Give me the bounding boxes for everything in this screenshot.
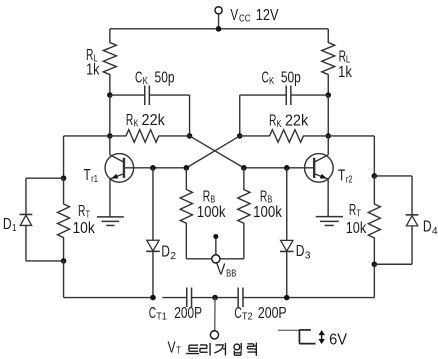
label RT left xyxy=(72,203,95,237)
label D4 xyxy=(423,219,438,237)
label VCC xyxy=(230,7,279,25)
label D3 xyxy=(296,243,311,261)
wire RL left to CK node xyxy=(109,74,111,95)
wire bottom rail segment 3 xyxy=(192,297,239,299)
wire D4 top lead xyxy=(374,176,412,215)
svg-text:T2: T2 xyxy=(242,310,253,322)
wire RB left top lead xyxy=(185,168,187,190)
wire left branch from RK row xyxy=(64,136,110,178)
wire CK left to corner xyxy=(149,95,189,136)
junction RT/D4 bottom xyxy=(372,261,378,267)
wire RT left upper lead xyxy=(63,178,65,204)
label Korean trigger input text xyxy=(186,343,256,356)
junction RK/CK left inner xyxy=(187,133,193,139)
label CK right xyxy=(261,69,300,87)
capacitor C_T1 (200P) xyxy=(187,288,192,308)
svg-text:BB: BB xyxy=(226,268,236,280)
junction RK/CK right inner xyxy=(237,133,243,139)
resistor R_K left (22k) xyxy=(126,130,159,143)
label RK right xyxy=(269,113,309,130)
wire Tr1 emitter to ground xyxy=(109,179,111,217)
wire Tr1 collector lead xyxy=(109,136,111,155)
junction D3 tap xyxy=(284,165,290,171)
svg-text:12V: 12V xyxy=(256,7,279,24)
wire cross-couple left-to-right xyxy=(190,136,244,168)
label D2 xyxy=(161,244,176,262)
svg-text:T: T xyxy=(86,209,91,221)
junction VCC rail xyxy=(216,26,222,32)
resistor R_L right (1k) xyxy=(322,43,335,75)
svg-text:10k: 10k xyxy=(346,220,367,237)
svg-text:1k: 1k xyxy=(338,64,352,81)
diode D3 xyxy=(280,240,294,251)
svg-text:r1: r1 xyxy=(91,173,98,185)
wire cross-couple right-to-left xyxy=(186,136,239,168)
wire D2 lower lead xyxy=(152,252,154,298)
wire right branch from RK row xyxy=(328,136,374,176)
label CK left xyxy=(135,69,175,87)
resistor R_T left (10k) xyxy=(58,204,70,238)
waveform falling edge xyxy=(298,330,300,344)
svg-text:C: C xyxy=(261,69,268,86)
wire D4 bottom lead xyxy=(374,226,412,264)
junction D2 tap xyxy=(150,165,156,171)
label Tr2 xyxy=(338,168,353,186)
wire VBB stub xyxy=(215,237,217,255)
svg-text:10k: 10k xyxy=(72,220,95,237)
wire CK left lead xyxy=(110,94,145,96)
waveform upper reference xyxy=(299,329,310,331)
svg-text:C: C xyxy=(135,69,142,86)
wire top rail to RL left xyxy=(109,29,111,43)
wire RK left leads xyxy=(110,135,190,137)
wire RL right to CK node xyxy=(327,74,329,95)
label VBB xyxy=(216,261,236,279)
svg-text:2: 2 xyxy=(170,250,176,262)
wire RB right top lead xyxy=(243,168,245,190)
wire top supply rail xyxy=(110,28,328,30)
svg-text:50p: 50p xyxy=(281,69,301,86)
resistor R_K right (22k) xyxy=(270,130,304,143)
wire D1 bottom lead xyxy=(26,225,64,260)
power terminal VCC xyxy=(215,7,222,14)
resistor R_B left (100k) xyxy=(180,190,192,224)
wire Tr2 collector lead xyxy=(327,136,329,155)
wire D2 upper lead xyxy=(152,168,154,240)
svg-text:D: D xyxy=(296,243,305,260)
svg-text:R: R xyxy=(269,113,276,130)
wire base row Tr1 xyxy=(124,167,186,169)
capacitor C_K right (50p) xyxy=(286,86,291,106)
wire bottom rail segment 2 xyxy=(162,297,186,299)
capacitor C_K left (50p) xyxy=(145,86,150,106)
svg-text:CC: CC xyxy=(239,12,251,24)
svg-text:K: K xyxy=(143,75,148,87)
wire right branch to bottom rail xyxy=(373,264,375,297)
wire CK right lead xyxy=(291,94,328,96)
svg-text:T1: T1 xyxy=(156,310,167,322)
svg-text:100k: 100k xyxy=(253,204,282,221)
label RK left xyxy=(126,112,165,129)
label RL right xyxy=(338,48,352,81)
svg-text:100k: 100k xyxy=(197,204,226,221)
label VT xyxy=(168,339,181,356)
wire bottom rail segment 1 xyxy=(64,297,156,299)
capacitor C_T2 (200P) xyxy=(238,288,243,308)
wire base row Tr2 xyxy=(244,167,314,169)
wire D3 lower lead xyxy=(286,252,288,298)
wire CK node to RK node right xyxy=(327,95,329,136)
label RT right xyxy=(346,202,367,237)
diode D1 xyxy=(20,214,33,225)
svg-text:C: C xyxy=(234,305,241,322)
svg-text:C: C xyxy=(149,305,156,322)
svg-text:T: T xyxy=(356,207,361,219)
svg-text:50p: 50p xyxy=(155,69,175,86)
waveform lower level line xyxy=(299,343,315,345)
node collector-1 junction (RL/CK) xyxy=(107,92,113,98)
junction RK row right rail xyxy=(325,133,331,139)
diode D2 xyxy=(146,240,160,251)
label RL left xyxy=(86,47,100,79)
waveform amplitude arrow xyxy=(318,330,324,344)
svg-text:V: V xyxy=(168,339,177,356)
ground under Tr2 xyxy=(316,217,343,226)
svg-text:4: 4 xyxy=(432,225,438,237)
resistor R_T right (10k) xyxy=(368,204,380,238)
wire RK right leads xyxy=(240,135,329,137)
label Tr1 xyxy=(84,167,99,185)
waveform top level line xyxy=(278,329,300,331)
svg-text:R: R xyxy=(260,188,267,205)
junction D4 branch xyxy=(372,173,378,179)
svg-text:3: 3 xyxy=(305,249,311,261)
wire VCC stub xyxy=(218,14,220,29)
wire left branch to bottom rail xyxy=(63,261,65,298)
wire CK right corner xyxy=(240,95,287,136)
terminal VT trigger xyxy=(210,331,218,339)
junction trigger tap xyxy=(212,295,218,301)
ground under Tr1 xyxy=(97,217,124,226)
junction RT/D1 bottom xyxy=(61,258,67,264)
wire RT left lower lead xyxy=(63,237,65,261)
junction RB right top xyxy=(241,165,247,171)
svg-text:R: R xyxy=(78,203,85,220)
wire bottom rail segment 4 xyxy=(243,297,374,299)
svg-text:V: V xyxy=(230,7,238,24)
svg-text:D: D xyxy=(3,216,12,233)
transistor Tr2 emitter stroke xyxy=(315,174,328,179)
svg-text:1k: 1k xyxy=(86,62,99,79)
transistor Tr1 emitter arrow xyxy=(111,174,118,179)
svg-text:K: K xyxy=(269,75,274,87)
junction RK row left rail xyxy=(107,133,113,139)
svg-text:T: T xyxy=(84,167,92,184)
junction D1 branch xyxy=(61,175,67,181)
wire RB right to VBB xyxy=(220,223,244,259)
wire RT right lower lead xyxy=(373,238,375,265)
svg-text:R: R xyxy=(126,112,133,129)
wire Tr2 emitter to ground xyxy=(327,179,329,217)
svg-text:200P: 200P xyxy=(174,305,202,322)
label CT1 xyxy=(149,305,202,322)
junction D3 bottom xyxy=(284,295,290,301)
svg-text:D: D xyxy=(161,244,170,261)
label CT2 xyxy=(234,305,286,322)
transistor Tr1 base bar xyxy=(123,158,125,178)
svg-text:6V: 6V xyxy=(329,331,348,348)
junction RB left top xyxy=(184,165,190,171)
transistor Tr2 body xyxy=(305,154,334,183)
resistor R_B right (100k) xyxy=(238,190,250,224)
wire trigger stub xyxy=(214,298,216,331)
svg-text:R: R xyxy=(203,188,210,205)
diode D4 xyxy=(406,215,419,226)
svg-text:T: T xyxy=(338,168,346,185)
label D1 xyxy=(3,216,17,234)
svg-text:K: K xyxy=(277,118,282,130)
transistor Tr2 emitter arrow xyxy=(320,174,327,179)
svg-text:r2: r2 xyxy=(346,174,353,186)
resistor R_L left (1k) xyxy=(103,43,116,75)
svg-text:K: K xyxy=(133,117,138,129)
junction D2 bottom xyxy=(150,295,156,301)
transistor Tr1 emitter stroke xyxy=(110,174,123,179)
svg-text:D: D xyxy=(423,219,432,236)
transistor Tr1 collector stroke xyxy=(110,155,124,162)
wire RT right upper lead xyxy=(373,176,375,204)
svg-text:200P: 200P xyxy=(258,305,287,322)
label RB left xyxy=(197,188,226,221)
svg-text:1: 1 xyxy=(12,222,17,234)
transistor Tr2 collector stroke xyxy=(315,155,329,162)
transistor Tr2 base bar xyxy=(313,158,315,178)
wire CK node to RK node left xyxy=(109,95,111,136)
svg-text:V: V xyxy=(216,261,226,278)
svg-text:R: R xyxy=(349,202,356,219)
wire D1 top lead xyxy=(26,178,64,214)
label 6V xyxy=(329,331,348,348)
wire D3 upper lead xyxy=(286,168,288,241)
transistor Tr1 body xyxy=(105,154,134,183)
wire RB left to VBB xyxy=(186,223,211,259)
node VBB stub dot xyxy=(213,234,218,239)
svg-text:22k: 22k xyxy=(142,112,166,129)
svg-text:22k: 22k xyxy=(285,113,309,130)
node collector-2 junction (RL/CK) xyxy=(325,92,331,98)
svg-text:T: T xyxy=(176,345,181,357)
wire top rail to RL right xyxy=(327,29,329,43)
terminal VBB xyxy=(212,255,220,263)
label RB right xyxy=(253,188,282,221)
